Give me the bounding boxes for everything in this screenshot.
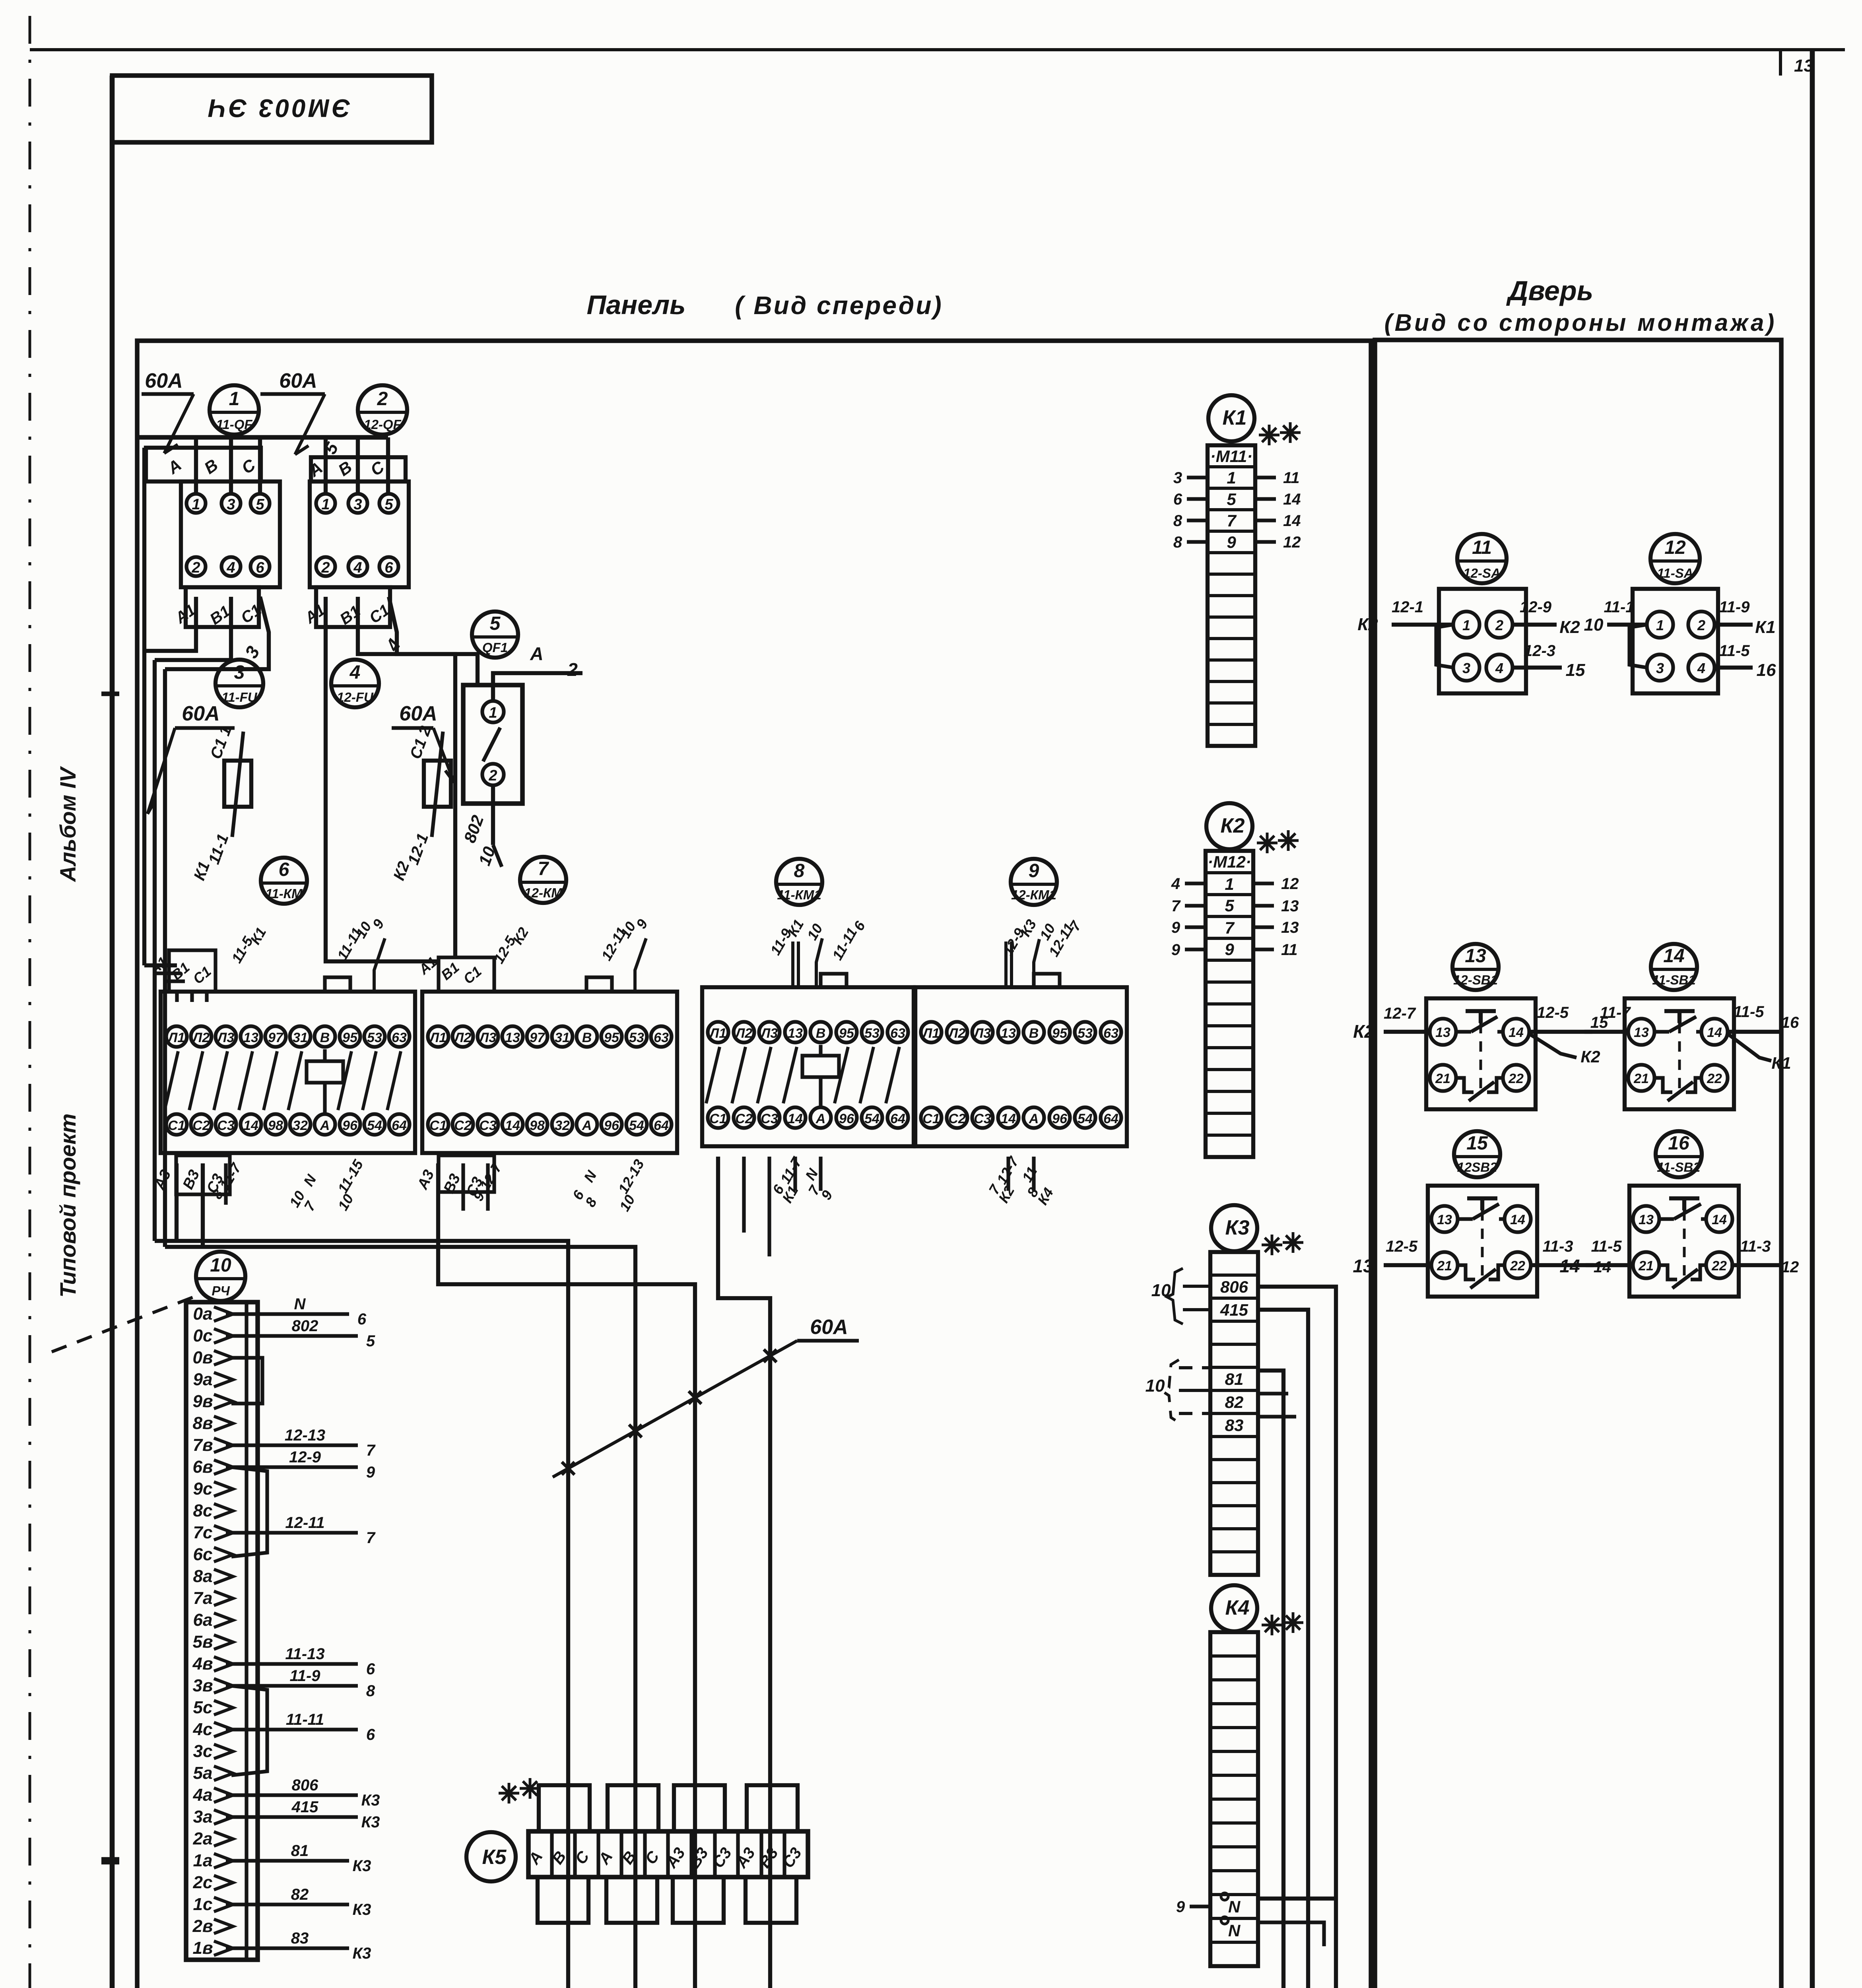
jumper over contactor 11-KM1 (821, 974, 847, 987)
svg-text:12-КМ: 12-КМ (524, 885, 563, 900)
leader dash to designator 10 (52, 1294, 201, 1352)
svg-text:12-11: 12-11 (285, 1514, 324, 1532)
breaker 12-QF upper terminal box (311, 457, 406, 481)
svg-text:0в: 0в (192, 1348, 213, 1367)
sheet left border (110, 76, 115, 1988)
svg-text:12-7: 12-7 (1384, 1005, 1416, 1022)
svg-text:К3: К3 (353, 1857, 371, 1875)
svg-text:Л1: Л1 (429, 1030, 447, 1045)
svg-text:806: 806 (292, 1776, 318, 1794)
button 11-SB2 body (1629, 1186, 1739, 1297)
svg-text:К5: К5 (482, 1846, 507, 1869)
svg-text:2с: 2с (193, 1873, 213, 1892)
wire 12-3 15 from 12-SA:4 (1513, 666, 1562, 670)
svg-text:22: 22 (1508, 1071, 1524, 1086)
breaker 11-QF upper terminal box (146, 448, 261, 481)
svg-text:Дверь: Дверь (1506, 275, 1593, 306)
svg-text:4: 4 (349, 662, 361, 683)
svg-text:12-FU: 12-FU (337, 690, 374, 705)
svg-text:12-9: 12-9 (1520, 598, 1552, 616)
svg-text:Л3: Л3 (216, 1030, 234, 1045)
svg-text:3: 3 (1656, 660, 1664, 676)
wire 11-11 from 10:4с (226, 1728, 358, 1731)
contactor 12-КМ1 body (915, 987, 1127, 1146)
wire 802 from 10:0с (226, 1334, 358, 1338)
svg-text:96: 96 (839, 1111, 854, 1126)
svg-text:53: 53 (629, 1030, 644, 1045)
svg-text:3: 3 (1173, 469, 1182, 487)
svg-text:3: 3 (353, 496, 362, 513)
svg-text:0с: 0с (193, 1326, 213, 1345)
switch designator 11 / 12-SA (1457, 534, 1507, 583)
svg-text:14: 14 (1510, 1212, 1525, 1227)
wire 14 11-5 to 11-SB2:21 (1586, 1263, 1633, 1267)
contactor 12-КМ body (422, 992, 677, 1153)
svg-text:3с: 3с (193, 1741, 213, 1761)
wire C1 breaker2 no.4 down to contactor 12-KM (389, 597, 455, 957)
svg-text:С1: С1 (709, 1111, 726, 1126)
svg-text:15: 15 (1566, 660, 1585, 680)
svg-text:В: В (816, 1026, 826, 1041)
svg-text:·М12·: ·М12· (1208, 852, 1251, 871)
svg-text:31: 31 (293, 1030, 308, 1045)
wire 12-5 15 К1 from 12-SB1:14 (1529, 1030, 1592, 1034)
svg-text:В: В (582, 1030, 592, 1045)
svg-text:53: 53 (1078, 1026, 1093, 1041)
QF1 bottom wire 802 10 (491, 785, 495, 845)
strip 10 jumper bracket rows 6в-6с (231, 1467, 267, 1557)
terminal block designator К1 (1208, 395, 1254, 441)
svg-text:14: 14 (1712, 1212, 1727, 1227)
svg-text:1: 1 (1656, 617, 1664, 633)
svg-text:6: 6 (357, 1310, 367, 1328)
svg-text:64: 64 (1103, 1111, 1118, 1126)
button 12-SB1 actuator (1466, 1009, 1496, 1013)
svg-text:4: 4 (1495, 660, 1503, 676)
svg-text:5: 5 (256, 496, 264, 513)
svg-text:14: 14 (1707, 1025, 1722, 1040)
wire stub left 9 at К2 (1185, 947, 1206, 951)
svg-text:2в: 2в (192, 1916, 213, 1936)
svg-text:7: 7 (538, 858, 549, 879)
svg-text:Л2: Л2 (453, 1030, 471, 1045)
wire 83 from 10:1в (226, 1946, 349, 1950)
svg-text:11-1: 11-1 (1604, 598, 1634, 616)
svg-text:Л2: Л2 (734, 1026, 752, 1041)
svg-text:95: 95 (342, 1030, 358, 1045)
button 11-SB1 NO contact (1654, 1030, 1669, 1033)
svg-text:11-13: 11-13 (285, 1645, 324, 1663)
button 12SB2 actuator (1467, 1196, 1497, 1200)
svg-text:4: 4 (353, 559, 362, 576)
wire К2 12-7 to 12-SB1:13 (1384, 1030, 1430, 1034)
svg-text:6: 6 (279, 859, 289, 880)
svg-text:Л1: Л1 (922, 1026, 940, 1041)
svg-text:N: N (294, 1295, 306, 1313)
contactor 11-KM1 pilot stubs (793, 1157, 797, 1191)
svg-text:8а: 8а (193, 1567, 213, 1586)
wire stub left 6 at К1 (1187, 497, 1208, 501)
sheet right border (1810, 50, 1815, 1988)
wire stub left 9 at К4 (1190, 1905, 1210, 1908)
circuit breaker 11-QF body (181, 481, 280, 587)
svg-text:13: 13 (788, 1026, 803, 1041)
svg-text:32: 32 (293, 1118, 308, 1133)
switch 11-SA body (1633, 589, 1718, 693)
switch QF1 body (463, 685, 522, 804)
button 12SB2 NC contact (1458, 1265, 1475, 1279)
svg-text:К3: К3 (1225, 1216, 1250, 1239)
terminal block designator K5 (466, 1832, 516, 1881)
svg-text:К3: К3 (353, 1901, 371, 1918)
svg-text:1: 1 (229, 388, 240, 410)
wire stub left 9 at К2 (1185, 925, 1206, 929)
svg-text:11-3: 11-3 (1740, 1238, 1771, 1255)
button 11-SB2 NO contact (1659, 1217, 1674, 1221)
svg-text:11-КМ1: 11-КМ1 (777, 887, 821, 902)
svg-text:К3: К3 (353, 1945, 371, 1962)
svg-text:1а: 1а (193, 1851, 213, 1870)
svg-text:11: 11 (1283, 469, 1300, 487)
svg-text:QF1: QF1 (482, 640, 508, 655)
svg-text:54: 54 (1078, 1111, 1093, 1126)
wire A1 breaker1 to bundle (144, 597, 196, 651)
svg-text:2: 2 (488, 767, 497, 784)
wire 806 from 10:4а (226, 1793, 358, 1797)
svg-text:12-1: 12-1 (1392, 598, 1423, 616)
K5 lower jumper loops (538, 1877, 588, 1923)
svg-text:22: 22 (1711, 1258, 1727, 1274)
contactor 11-КМ body (161, 992, 415, 1153)
sheet top border line (30, 48, 1845, 51)
svg-text:1: 1 (489, 705, 497, 721)
svg-text:11-7: 11-7 (1600, 1004, 1631, 1021)
svg-text:12-5: 12-5 (1386, 1238, 1418, 1255)
svg-text:10: 10 (1146, 1376, 1165, 1396)
svg-text:9: 9 (1171, 941, 1180, 959)
svg-text:10: 10 (1584, 615, 1604, 635)
wire C-group 1 to K5 column (155, 1241, 568, 1988)
svg-text:С1: С1 (168, 1118, 185, 1133)
svg-text:13: 13 (1281, 897, 1299, 915)
button 11-SB1 actuator (1664, 1009, 1695, 1013)
wire C-group 4 to K5 column (718, 1157, 770, 1988)
svg-text:1: 1 (1462, 617, 1470, 633)
wire 11-5 16 from 11-SB1:14 (1728, 1030, 1781, 1034)
svg-text:14: 14 (1663, 945, 1684, 967)
svg-text:14: 14 (788, 1111, 803, 1126)
wire К1 diagonal from 11-SB1:14 (1728, 1034, 1771, 1061)
svg-text:2: 2 (1697, 617, 1705, 633)
svg-text:64: 64 (654, 1118, 669, 1133)
svg-text:К1: К1 (1223, 406, 1247, 429)
svg-text:К2: К2 (1353, 1021, 1375, 1042)
wire stub right 13 at К2 (1253, 904, 1274, 907)
button designator 15 / 12SB2 (1454, 1131, 1500, 1177)
svg-text:82: 82 (1225, 1393, 1244, 1411)
wire from K3:415 down right side to cable K38 (895, 1310, 1308, 1988)
svg-text:11-3: 11-3 (1542, 1238, 1573, 1255)
svg-text:83: 83 (1225, 1416, 1244, 1435)
wire 415 from 10:3а (226, 1815, 358, 1819)
svg-text:13: 13 (505, 1030, 520, 1045)
K4 terminal N circles (1221, 1893, 1228, 1900)
button 11-SB1 NC contact (1654, 1078, 1672, 1092)
svg-text:5: 5 (366, 1332, 375, 1350)
wire C-group 2 to K5 column (165, 1247, 635, 1988)
svg-text:В: В (1029, 1026, 1039, 1041)
svg-text:7: 7 (366, 1529, 376, 1547)
svg-text:N: N (1228, 1897, 1241, 1916)
jumper over contactor 12-KM (586, 977, 612, 992)
svg-text:7: 7 (1225, 918, 1235, 937)
contactor designator 7 / 12-КМ (520, 857, 566, 903)
svg-text:1: 1 (1225, 875, 1234, 893)
svg-text:9: 9 (1225, 940, 1234, 959)
svg-text:9: 9 (1029, 860, 1039, 881)
sheet left dash-dot margin line (29, 16, 31, 1988)
breaker 12-QF lower terminal box (316, 587, 390, 627)
svg-text:13: 13 (1634, 1025, 1649, 1040)
svg-text:8в: 8в (192, 1413, 213, 1433)
svg-text:64: 64 (392, 1118, 407, 1133)
svg-text:14: 14 (243, 1118, 258, 1133)
svg-text:95: 95 (604, 1030, 619, 1045)
svg-text:С1: С1 (922, 1111, 940, 1126)
svg-text:1: 1 (192, 496, 200, 513)
svg-text:С2: С2 (454, 1118, 472, 1133)
svg-text:5: 5 (490, 613, 501, 634)
svg-text:С3: С3 (761, 1111, 778, 1126)
wire stub right 11 at К2 (1253, 947, 1274, 951)
svg-text:3: 3 (234, 662, 245, 683)
bundle into contactor 11-KM (144, 963, 177, 967)
button 11-SB1 body (1625, 998, 1734, 1109)
svg-text:32: 32 (555, 1118, 570, 1133)
svg-text:3в: 3в (192, 1676, 213, 1695)
svg-text:6с: 6с (193, 1545, 213, 1564)
fuse 12-FU (424, 761, 451, 807)
svg-text:12: 12 (1781, 1258, 1799, 1276)
svg-text:13: 13 (1353, 1256, 1373, 1276)
wire stub right 13 at К2 (1253, 925, 1274, 929)
svg-text:9в: 9в (192, 1392, 213, 1411)
svg-text:11-FU: 11-FU (221, 690, 257, 705)
svg-text:21: 21 (1633, 1071, 1649, 1086)
svg-text:С3: С3 (479, 1118, 497, 1133)
svg-text:60А: 60А (399, 702, 437, 725)
svg-text:А: А (582, 1118, 592, 1133)
svg-text:Л1: Л1 (709, 1026, 726, 1041)
svg-text:14: 14 (1283, 512, 1301, 530)
svg-text:22: 22 (1707, 1071, 1722, 1086)
svg-text:14: 14 (1509, 1025, 1524, 1040)
terminal assembly designator 10 / РЧ (196, 1252, 245, 1301)
svg-text:3: 3 (227, 496, 235, 513)
svg-text:С2: С2 (948, 1111, 966, 1126)
wire drop to breaker 2 (324, 437, 328, 494)
svg-text:54: 54 (629, 1118, 644, 1133)
svg-text:60А: 60А (810, 1316, 848, 1339)
svg-text:4в: 4в (192, 1654, 213, 1673)
svg-text:Л3: Л3 (973, 1026, 991, 1041)
panel outline (137, 341, 1371, 1988)
strip 10 jumper bracket rows 0в-9в (231, 1358, 262, 1404)
svg-text:97: 97 (268, 1030, 284, 1045)
svg-text:7с: 7с (193, 1523, 213, 1542)
svg-text:12SB2: 12SB2 (1457, 1160, 1498, 1175)
terminal block К1 body (1208, 445, 1255, 746)
wire 12-11 from 10:7с (226, 1531, 358, 1534)
svg-text:806: 806 (1220, 1277, 1248, 1296)
svg-text:9: 9 (1171, 919, 1180, 936)
wire К2 diagonal from 12-SB1:14 (1529, 1034, 1577, 1058)
svg-text:63: 63 (654, 1030, 669, 1045)
svg-text:0а: 0а (193, 1304, 213, 1324)
svg-text:98: 98 (268, 1118, 283, 1133)
svg-text:81: 81 (1225, 1370, 1244, 1388)
svg-text:7: 7 (1227, 511, 1237, 530)
svg-text:Л3: Л3 (478, 1030, 496, 1045)
svg-text:12: 12 (1281, 875, 1299, 893)
button 12-SB1 body (1426, 998, 1536, 1109)
svg-text:( Вид спереди): ( Вид спереди) (735, 291, 943, 320)
wire 11-3 14 from 12-SB2:22 (1531, 1263, 1594, 1267)
svg-text:13: 13 (1281, 919, 1299, 936)
circuit breaker 12-QF body (310, 481, 409, 587)
svg-text:С3: С3 (974, 1111, 991, 1126)
svg-text:12: 12 (1283, 534, 1301, 551)
svg-text:12-5: 12-5 (1537, 1004, 1569, 1021)
wire from K3:81 down to cable K39 (829, 1371, 1283, 1988)
svg-text:Панель: Панель (586, 290, 685, 320)
wire stub left 8 at К1 (1187, 518, 1208, 522)
svg-text:Типовой проект: Типовой проект (55, 1113, 80, 1297)
strip 10 jumper bracket rows 3в-3с (231, 1686, 267, 1775)
svg-text:8с: 8с (193, 1501, 213, 1520)
svg-text:13: 13 (1794, 56, 1813, 76)
svg-text:11-5: 11-5 (1733, 1003, 1764, 1021)
svg-text:11-КМ: 11-КМ (265, 886, 303, 901)
wire N from 10:0а (226, 1312, 349, 1316)
fuse designator 4 / 12-FU (331, 660, 379, 707)
svg-text:2: 2 (377, 388, 388, 410)
contactor designator 6 / 11-КМ (261, 858, 307, 904)
svg-text:11: 11 (1472, 537, 1492, 558)
svg-text:83: 83 (291, 1930, 309, 1947)
svg-text:95: 95 (839, 1026, 854, 1041)
svg-text:2: 2 (321, 559, 330, 576)
switch designator 5 / QF1 (472, 612, 518, 658)
svg-text:4а: 4а (193, 1785, 213, 1805)
svg-text:415: 415 (291, 1798, 318, 1816)
button 12SB2 NO contact (1458, 1217, 1473, 1221)
button 11-SB2 NC contact (1659, 1265, 1677, 1279)
svg-text:82: 82 (291, 1886, 309, 1903)
QF1 contact stroke (483, 728, 500, 761)
svg-text:К2: К2 (1580, 1047, 1600, 1066)
svg-text:2: 2 (191, 559, 200, 576)
svg-text:С2: С2 (735, 1111, 753, 1126)
contactor bottom stubs (224, 1163, 227, 1205)
svg-text:Л3: Л3 (760, 1026, 778, 1041)
svg-text:14: 14 (1559, 1256, 1580, 1276)
svg-text:802: 802 (292, 1317, 318, 1335)
svg-text:9: 9 (1227, 533, 1236, 551)
svg-text:13: 13 (243, 1030, 258, 1045)
svg-text:Альбом IV: Альбом IV (55, 766, 80, 883)
terminal block К3 body (1210, 1252, 1258, 1575)
svg-text:С2: С2 (192, 1118, 210, 1133)
K4 lower N stub (1258, 1922, 1324, 1946)
svg-text:12-3: 12-3 (1524, 642, 1555, 660)
svg-text:16: 16 (1757, 660, 1776, 680)
wire 81 from 10:1а (226, 1859, 349, 1862)
wire 82 from 10:1с (226, 1903, 349, 1906)
svg-text:16: 16 (1668, 1133, 1689, 1154)
button designator 14 / 11-SB1 (1651, 944, 1697, 990)
svg-text:63: 63 (890, 1026, 905, 1041)
svg-text:12-13: 12-13 (285, 1427, 325, 1444)
svg-text:12-9: 12-9 (289, 1448, 321, 1466)
svg-text:98: 98 (530, 1118, 545, 1133)
svg-text:95: 95 (1052, 1026, 1068, 1041)
svg-text:5: 5 (384, 496, 393, 513)
wire 13 12-5 to 12-SB2:21 (1384, 1263, 1431, 1267)
wire К2 12-1 to 12-SA:1 (1392, 623, 1453, 627)
contactor 12-KM upper terminal box А1 В1 С1 (439, 957, 494, 992)
svg-text:14: 14 (1283, 491, 1301, 508)
QF1 pin 1 (482, 701, 504, 722)
svg-text:9с: 9с (193, 1479, 213, 1499)
svg-text:5: 5 (1227, 490, 1236, 509)
svg-text:8: 8 (366, 1682, 375, 1700)
wire 11-9 К1 from 11-SA:2 (1714, 623, 1753, 627)
svg-text:21: 21 (1437, 1258, 1452, 1274)
wire 12-9 К2 from 12-SA:2 (1513, 623, 1557, 627)
wire 12-13 from 10:7в (226, 1443, 358, 1447)
wire from K3:806 down right side to null bus (1258, 1287, 1336, 1988)
button designator 13 / 12-SB1 (1452, 944, 1499, 990)
svg-text:(Вид со стороны монтажа): (Вид со стороны монтажа) (1384, 309, 1777, 336)
wire 12-9 from 10:6в (226, 1465, 358, 1469)
svg-text:К3: К3 (361, 1813, 380, 1831)
svg-text:96: 96 (1052, 1111, 1068, 1126)
svg-text:N: N (1228, 1921, 1241, 1940)
svg-text:60А: 60А (145, 369, 183, 392)
terminal block designator К4 (1211, 1585, 1257, 1631)
QF1 pin 2 (482, 764, 504, 785)
svg-text:8: 8 (794, 860, 805, 881)
svg-text:14: 14 (1001, 1111, 1016, 1126)
svg-text:1в: 1в (192, 1938, 213, 1958)
svg-text:7в: 7в (192, 1435, 213, 1455)
svg-text:7а: 7а (193, 1588, 213, 1608)
wire 11-5 16 from 11-SA:4 (1714, 666, 1753, 670)
svg-text:8: 8 (1173, 534, 1182, 551)
svg-text:Л1: Л1 (167, 1030, 185, 1045)
svg-text:3: 3 (1462, 660, 1470, 676)
svg-text:6: 6 (366, 1726, 375, 1743)
svg-text:97: 97 (530, 1030, 546, 1045)
svg-text:5: 5 (1225, 896, 1234, 915)
svg-text:6: 6 (1173, 491, 1182, 508)
svg-text:64: 64 (890, 1111, 905, 1126)
svg-text:12-SB1: 12-SB1 (1453, 973, 1498, 987)
svg-text:22: 22 (1510, 1258, 1525, 1274)
svg-text:31: 31 (555, 1030, 570, 1045)
jumper over contactor 11-KM (325, 977, 350, 992)
